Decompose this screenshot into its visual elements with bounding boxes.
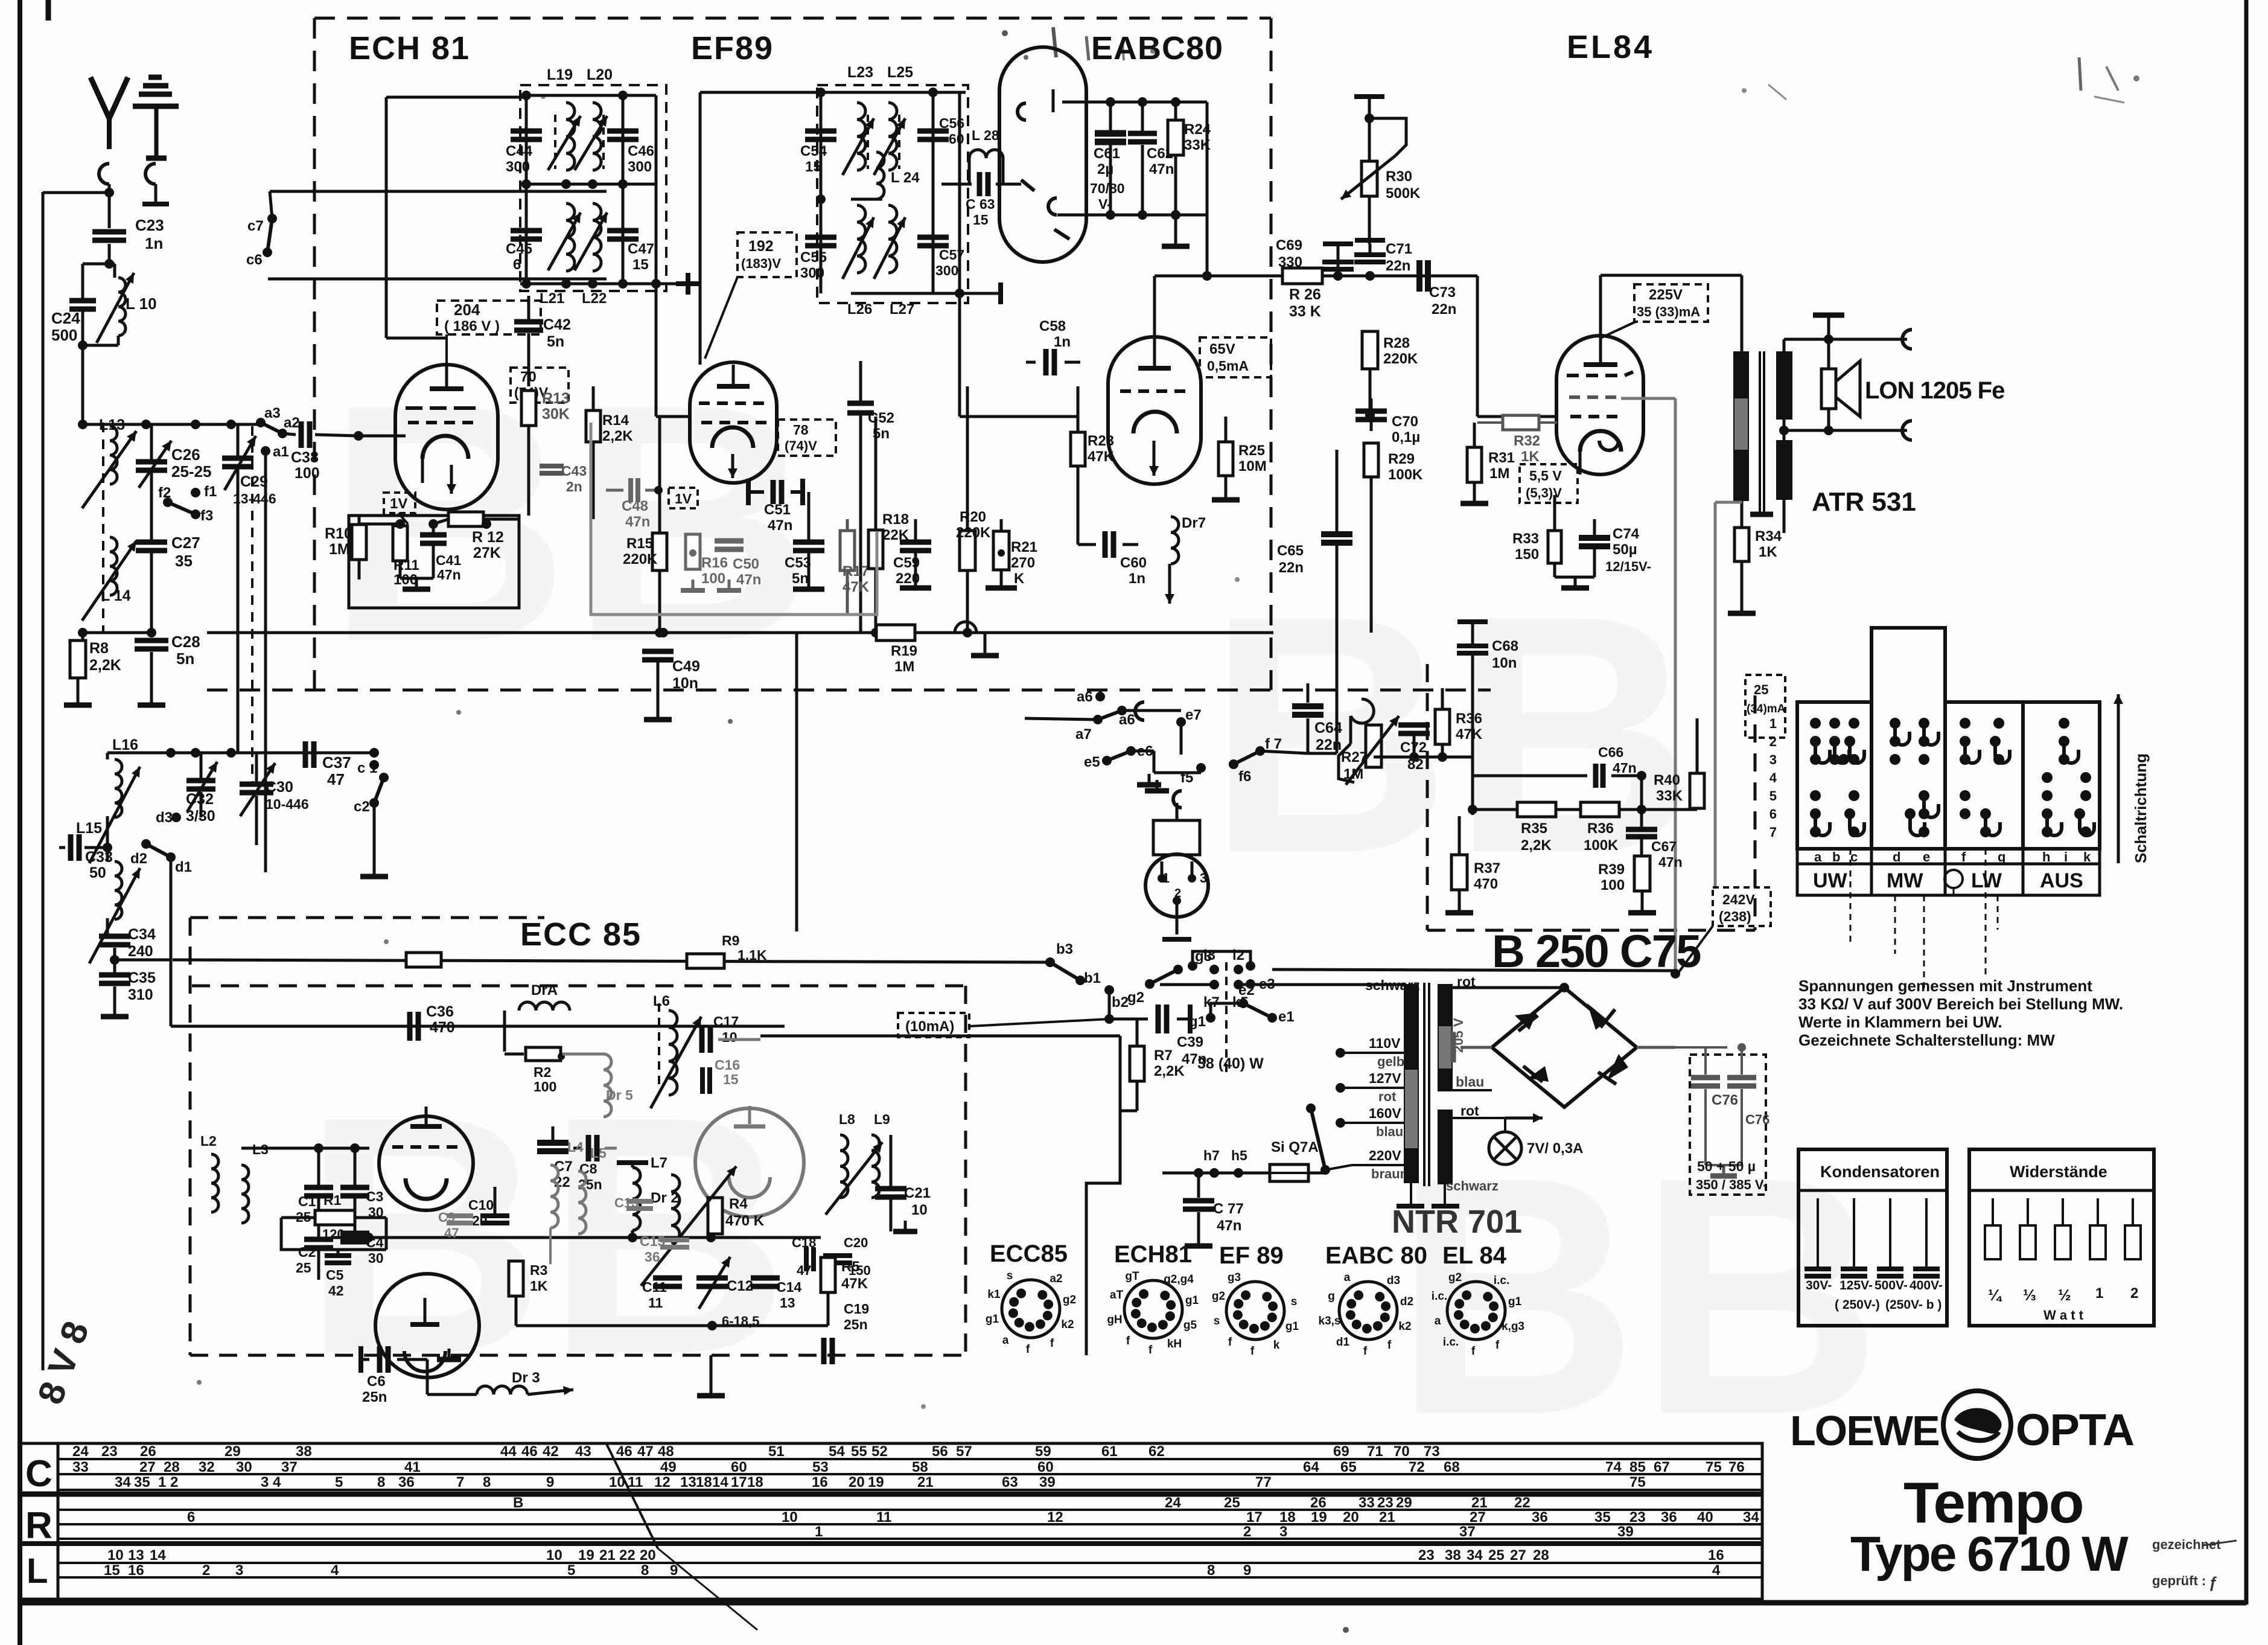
svg-text:R7: R7: [1154, 1047, 1173, 1064]
page frame left border: [18, 0, 22, 1645]
svg-text:220V: 220V: [1369, 1148, 1401, 1163]
svg-text:5n: 5n: [547, 333, 564, 350]
svg-text:C10: C10: [468, 1197, 494, 1213]
svg-text:a7: a7: [1075, 726, 1092, 743]
EF89 internal electrodes: [699, 365, 766, 478]
svg-text:10n: 10n: [672, 675, 698, 692]
label 205V rotated: [1451, 1018, 1466, 1053]
svg-text:g: g: [1998, 849, 2005, 864]
svg-text:ƒ: ƒ: [2209, 1573, 2217, 1591]
svg-text:47: 47: [637, 1443, 654, 1460]
svg-text:i.c.: i.c.: [1432, 1290, 1447, 1303]
coil DrA: [505, 982, 570, 1052]
wire T4 anode up: [1153, 276, 1156, 338]
svg-text:f: f: [1148, 1344, 1153, 1356]
legend resistor symbols: [1985, 1198, 2141, 1323]
svg-text:15: 15: [723, 1072, 739, 1087]
svg-text:C44: C44: [506, 143, 533, 159]
svg-text:f: f: [1471, 1345, 1476, 1358]
power switch lever: [1306, 1104, 1352, 1175]
capacitor C17: [677, 1014, 760, 1053]
svg-text:7: 7: [1769, 825, 1777, 840]
svg-text:100: 100: [701, 570, 725, 587]
coil Dr3: [427, 1359, 540, 1394]
label EF89: [691, 30, 774, 66]
svg-text:a: a: [1344, 1271, 1351, 1284]
svg-text:100K: 100K: [1388, 467, 1423, 483]
svg-text:15: 15: [805, 159, 821, 175]
label L25: [887, 64, 913, 81]
svg-text:R21: R21: [1011, 539, 1037, 555]
coils L4 L5 gray: [550, 1139, 607, 1264]
resistor R17: [840, 519, 870, 615]
svg-text:47n: 47n: [736, 572, 761, 588]
svg-text:aT: aT: [1110, 1289, 1124, 1302]
svg-text:i.c.: i.c.: [1443, 1336, 1459, 1349]
resistor R2: [505, 1047, 604, 1094]
svg-text:R33: R33: [1512, 531, 1539, 547]
resistor R25: [1212, 417, 1267, 500]
svg-text:75: 75: [1629, 1474, 1646, 1490]
tube EF89: [690, 362, 777, 483]
svg-text:204: 204: [454, 301, 480, 319]
handwritten mark 8V8: [30, 1316, 97, 1410]
svg-text:47n: 47n: [437, 567, 461, 583]
svg-text:72: 72: [1409, 1459, 1425, 1475]
svg-text:g1: g1: [986, 1313, 999, 1326]
svg-text:f2: f2: [158, 485, 171, 501]
svg-text:k5: k5: [1232, 994, 1249, 1011]
svg-text:g1: g1: [1508, 1295, 1522, 1308]
resistor R29: [1364, 443, 1423, 633]
svg-text:23: 23: [1418, 1547, 1435, 1564]
svg-text:LW: LW: [1971, 869, 2002, 892]
svg-text:192: 192: [748, 238, 774, 255]
svg-text:R34: R34: [1755, 528, 1782, 545]
mains DIN socket: [1145, 803, 1208, 939]
svg-text:f1: f1: [204, 484, 217, 500]
svg-text:L27: L27: [890, 301, 914, 318]
svg-text:12: 12: [1047, 1509, 1063, 1525]
dashed voltage box 5,5V (5,3)V: [1520, 464, 1578, 503]
capacitor C46: [607, 131, 654, 175]
svg-text:C23: C23: [135, 216, 164, 234]
svg-text:i3: i3: [1203, 947, 1215, 963]
resistor R14: [586, 386, 633, 519]
svg-text:rot: rot: [1378, 1089, 1397, 1104]
matrix contacts UW column: [1810, 718, 1864, 837]
resistor R8: [70, 640, 121, 695]
svg-text:62: 62: [1148, 1443, 1165, 1460]
coil L13: [78, 417, 136, 633]
capacitor C35: [99, 969, 156, 1007]
capacitor C51: [748, 479, 803, 534]
svg-text:W a t t: W a t t: [2043, 1308, 2084, 1323]
svg-text:C43: C43: [561, 463, 587, 479]
svg-text:270: 270: [1011, 555, 1035, 571]
svg-text:34: 34: [1743, 1509, 1759, 1525]
switch matrix row numbers: [1769, 716, 1777, 840]
svg-text:C67: C67: [1651, 838, 1677, 854]
svg-text:50 + 50 µ: 50 + 50 µ: [1697, 1158, 1756, 1174]
svg-text:37: 37: [1459, 1524, 1476, 1540]
svg-text:EF89: EF89: [691, 30, 774, 66]
svg-text:47: 47: [327, 770, 345, 788]
svg-text:3: 3: [1769, 752, 1777, 767]
title Type 6710W: [1850, 1527, 2129, 1582]
svg-text:L5: L5: [590, 1145, 607, 1161]
capacitor C19: [824, 1301, 869, 1364]
wire EL84 anode to OT: [1601, 275, 1742, 351]
svg-text:L: L: [27, 1551, 48, 1591]
wire osc out: [386, 1233, 426, 1235]
dashed box ECC85 oscillator section: [190, 918, 966, 1355]
svg-text:28: 28: [1533, 1547, 1549, 1564]
table L row 1 numbers: [107, 1547, 1724, 1564]
svg-text:Werte in Klammern bei UW.: Werte in Klammern bei UW.: [1798, 1013, 2002, 1031]
svg-text:R 26: R 26: [1289, 286, 1321, 303]
corner tick top-left: [46, 0, 51, 21]
svg-text:85: 85: [1629, 1459, 1646, 1475]
hook and ground mid switch: [1135, 702, 1161, 785]
wire OT secondary mid: [1779, 420, 1907, 440]
svg-text:gH: gH: [1107, 1314, 1122, 1326]
note line 1: [1798, 977, 2092, 995]
svg-text:330: 330: [1278, 254, 1302, 270]
svg-text:R37: R37: [1474, 860, 1500, 877]
svg-text:25-25: 25-25: [171, 462, 212, 481]
trimmer C32: [186, 753, 217, 825]
capacitor C63: [941, 172, 1021, 228]
svg-text:36: 36: [1532, 1509, 1548, 1525]
resistor R23: [1071, 386, 1115, 545]
svg-text:s: s: [1007, 1270, 1013, 1282]
svg-text:56: 56: [932, 1443, 948, 1460]
capacitor C48 (gray): [606, 478, 663, 530]
svg-text:a2: a2: [1050, 1273, 1062, 1285]
R1 parallel loop: [281, 1218, 386, 1250]
svg-text:C60: C60: [1120, 555, 1147, 571]
annotation geprueft: [2152, 1573, 2217, 1591]
svg-text:C54: C54: [800, 143, 827, 159]
svg-text:25: 25: [1488, 1547, 1505, 1564]
capacitor C34: [99, 926, 156, 973]
wire to R40: [1629, 718, 1697, 719]
svg-text:C30: C30: [266, 779, 293, 796]
svg-text:e: e: [1923, 849, 1930, 864]
svg-text:24: 24: [72, 1443, 89, 1460]
capacitor C7: [537, 1126, 573, 1190]
capacitor C20: [823, 1235, 871, 1278]
IF1 left wire: [521, 91, 531, 289]
svg-text:EABC80: EABC80: [1091, 30, 1223, 66]
svg-text:4: 4: [1712, 1562, 1721, 1579]
dashed voltage box 78 (74)V: [778, 420, 836, 456]
capacitor C45: [506, 231, 542, 273]
logo emblem circle: [1943, 1391, 2011, 1458]
wire main switch bus: [1250, 939, 1678, 971]
capacitor C4: [340, 1233, 384, 1266]
svg-text:(34)mA: (34)mA: [1747, 703, 1786, 715]
svg-text:k,g3: k,g3: [1502, 1320, 1524, 1333]
svg-text:100: 100: [1601, 877, 1625, 893]
svg-text:1: 1: [158, 1474, 166, 1490]
svg-text:Widerstände: Widerstände: [2010, 1163, 2107, 1181]
svg-text:d1: d1: [1336, 1336, 1350, 1349]
svg-text:30: 30: [236, 1459, 252, 1475]
svg-text:R28: R28: [1383, 335, 1410, 351]
svg-text:R18: R18: [882, 511, 909, 528]
svg-text:d3: d3: [1387, 1274, 1400, 1287]
resistor R10: [325, 516, 366, 580]
capacitor C14: [751, 1278, 801, 1311]
svg-text:29: 29: [225, 1443, 241, 1460]
switch c1 c2: [354, 760, 389, 867]
capacitor C16: [702, 1057, 740, 1094]
svg-text:R19: R19: [891, 643, 917, 659]
transformer NTR701 primary bar: [1404, 984, 1419, 1183]
coil Dr5 gray: [604, 1054, 633, 1117]
IF1 right wire: [618, 91, 628, 289]
svg-text:47: 47: [797, 1263, 811, 1278]
svg-text:220K: 220K: [1383, 351, 1418, 367]
solid box AGC cell: [349, 516, 519, 608]
svg-text:b: b: [1832, 849, 1840, 864]
dashed voltage box 1V: [384, 493, 415, 524]
switch e5 e6 lever: [1084, 743, 1153, 770]
svg-text:21: 21: [917, 1474, 934, 1490]
svg-text:C13: C13: [614, 1195, 639, 1210]
wire gray g2 right: [1621, 398, 1675, 974]
wire g3 jog: [1193, 951, 1255, 971]
svg-text:127V: 127V: [1369, 1070, 1401, 1086]
svg-text:11: 11: [648, 1295, 663, 1311]
svg-text:c7: c7: [247, 218, 264, 234]
tube EL84: [1556, 336, 1643, 474]
svg-text:C36: C36: [426, 1003, 454, 1020]
svg-text:d3: d3: [156, 810, 173, 826]
svg-text:69: 69: [1333, 1443, 1349, 1460]
svg-text:2: 2: [170, 1474, 178, 1490]
label NTR 701: [1392, 1204, 1522, 1240]
svg-text:54: 54: [829, 1443, 845, 1460]
svg-text:R20: R20: [960, 509, 986, 525]
capacitor C65: [1277, 450, 1352, 753]
svg-text:500V-: 500V-: [1875, 1279, 1908, 1292]
capacitor C36: [410, 1003, 455, 1041]
svg-text:a1: a1: [273, 444, 289, 460]
svg-text:300: 300: [628, 159, 652, 175]
svg-text:310: 310: [128, 986, 153, 1003]
svg-text:13: 13: [680, 1474, 696, 1490]
resistor R31: [1461, 423, 1515, 503]
svg-text:C 77: C 77: [1213, 1201, 1244, 1217]
grid wire into ECH81 tube: [358, 435, 406, 438]
svg-text:(74)V: (74)V: [785, 438, 817, 453]
svg-text:5: 5: [335, 1474, 343, 1490]
connector hook top right: [1902, 330, 1912, 349]
svg-text:f: f: [1050, 1337, 1054, 1350]
svg-text:34: 34: [1467, 1547, 1483, 1564]
pilot lamp: [1453, 1113, 1583, 1164]
svg-text:AUS: AUS: [2040, 869, 2083, 892]
volume control R30: [1341, 97, 1421, 244]
trimmer C12: [696, 1257, 759, 1329]
dashed voltage box 242V (238): [1679, 887, 1771, 972]
capacitor C3: [340, 1143, 384, 1231]
svg-text:47K: 47K: [1456, 726, 1483, 743]
capacitor C60: [1078, 531, 1147, 587]
contact d3: [156, 810, 181, 826]
svg-text:33: 33: [72, 1459, 89, 1475]
svg-text:18: 18: [747, 1474, 763, 1490]
capacitor C64: [1260, 683, 1342, 753]
svg-text:f 7: f 7: [1265, 736, 1282, 752]
label schwarz top: [1365, 977, 1420, 993]
svg-text:LON 1205 Fe: LON 1205 Fe: [1865, 377, 2004, 404]
wire antenna to bus: [43, 188, 114, 197]
svg-text:gelb: gelb: [1377, 1054, 1404, 1069]
wire R30 down to C71: [1369, 244, 1371, 252]
ground below c2: [360, 866, 388, 877]
table C row 1 numbers: [72, 1443, 1440, 1460]
resistor R13: [521, 390, 570, 426]
svg-text:C27: C27: [171, 534, 200, 552]
wire anode top to IF1: [386, 96, 526, 99]
svg-text:C76: C76: [1745, 1112, 1769, 1127]
svg-text:e5: e5: [1084, 754, 1100, 770]
svg-text:15: 15: [632, 257, 649, 273]
svg-text:d2: d2: [1400, 1295, 1413, 1308]
svg-text:19: 19: [868, 1474, 884, 1490]
svg-text:42: 42: [328, 1283, 344, 1298]
capacitor C52: [847, 361, 894, 633]
svg-text:2µ: 2µ: [1097, 161, 1113, 177]
dashed voltage box 1V EF89: [669, 488, 698, 508]
svg-text:150: 150: [1515, 546, 1539, 563]
arrow after Dr3: [527, 1386, 573, 1395]
svg-text:470 K: 470 K: [725, 1213, 765, 1229]
svg-text:¼: ¼: [1988, 1286, 2002, 1304]
ground OT bottom: [1742, 501, 1773, 514]
svg-text:i: i: [2064, 849, 2068, 864]
svg-text:(183)V: (183)V: [741, 256, 781, 271]
resistor R24: [1168, 102, 1211, 237]
svg-text:C49: C49: [672, 658, 700, 675]
svg-text:35: 35: [175, 552, 193, 570]
svg-text:77: 77: [1255, 1474, 1272, 1490]
capacitor C50 (gray): [715, 541, 761, 588]
svg-text:k: k: [1273, 1339, 1280, 1352]
svg-text:38 (40) W: 38 (40) W: [1197, 1055, 1264, 1072]
svg-text:C14: C14: [776, 1279, 801, 1295]
coil L8 L9: [826, 1111, 891, 1215]
resistor R6 on bus: [406, 953, 441, 967]
svg-text:Gezeichnete Schalterstellun: Gezeichnete Schalterstellung: MW: [1798, 1031, 2055, 1049]
wire hook jump: [955, 622, 976, 633]
dashed voltage box 192 (183)V: [705, 232, 797, 359]
svg-text:( 250V-): ( 250V-): [1835, 1298, 1880, 1312]
resistor R28: [1362, 331, 1418, 420]
switch d2 d1: [130, 839, 192, 875]
svg-text:74: 74: [1605, 1459, 1622, 1475]
matrix contacts LW column: [1960, 718, 2010, 837]
svg-text:10: 10: [107, 1547, 124, 1564]
svg-text:R36: R36: [1587, 820, 1614, 837]
svg-text:C53: C53: [785, 555, 811, 571]
svg-text:50µ: 50µ: [1613, 541, 1637, 558]
capacitor C76b: [1727, 1043, 1756, 1165]
resistor R16 (gray): [686, 534, 728, 587]
svg-text:s: s: [1291, 1295, 1298, 1308]
label blau mid: [1456, 1074, 1484, 1090]
svg-text:g2: g2: [1448, 1271, 1462, 1284]
svg-text:71: 71: [1367, 1443, 1383, 1460]
svg-text:C45: C45: [506, 241, 532, 257]
svg-text:120: 120: [322, 1227, 345, 1242]
wire HT bottom to bridge: [1453, 1047, 1492, 1090]
wire B+ rail right gray: [1715, 502, 1742, 886]
capacitor C68: [1457, 622, 1518, 688]
svg-text:38: 38: [296, 1443, 312, 1460]
IF2 horizontals: [817, 92, 966, 293]
svg-text:k3,s: k3,s: [1319, 1315, 1341, 1327]
svg-text:C1: C1: [298, 1193, 316, 1209]
capacitor C8: [573, 1135, 617, 1192]
ground above speaker: [1813, 315, 1844, 339]
capacitor C58: [1026, 318, 1080, 375]
svg-text:R25: R25: [1238, 442, 1265, 459]
svg-text:10: 10: [782, 1509, 798, 1525]
box around band switch c7/c6: [268, 191, 607, 279]
capacitor C28: [135, 633, 200, 695]
IF/AGC bus wire: [207, 628, 1273, 637]
svg-text:22: 22: [1514, 1495, 1531, 1511]
svg-text:C46: C46: [628, 143, 654, 159]
wire R13 down: [527, 426, 530, 516]
coil L2: [200, 1133, 218, 1212]
label LON 1205 Fe: [1865, 377, 2004, 404]
svg-text:L6: L6: [653, 993, 670, 1009]
EABC80 right wire down: [1206, 102, 1209, 276]
IF1 secondary right wire: [651, 95, 661, 417]
svg-text:⅓: ⅓: [2023, 1286, 2036, 1304]
svg-text:k: k: [2083, 849, 2091, 864]
svg-text:36: 36: [1661, 1509, 1677, 1525]
svg-text:500K: 500K: [1386, 185, 1421, 202]
svg-text:61: 61: [1101, 1443, 1118, 1460]
svg-text:ATR 531: ATR 531: [1812, 487, 1916, 517]
label rot lamp: [1461, 1103, 1479, 1119]
svg-text:k2: k2: [1398, 1320, 1411, 1333]
bus down to switches: [1273, 633, 1274, 690]
svg-text:f: f: [1250, 1345, 1255, 1358]
svg-text:C55: C55: [800, 249, 827, 266]
table stray diagonal stroke: [607, 1444, 757, 1630]
svg-text:2: 2: [1243, 1524, 1251, 1540]
svg-text:44: 44: [500, 1443, 517, 1460]
svg-text:5,5 V: 5,5 V: [1529, 468, 1562, 484]
switch matrix LW column box: [1945, 702, 2023, 849]
svg-text:15: 15: [104, 1562, 120, 1579]
svg-text:c6: c6: [246, 252, 263, 268]
svg-text:C42: C42: [543, 316, 571, 333]
svg-text:23: 23: [101, 1443, 118, 1460]
svg-text:L2: L2: [200, 1133, 217, 1149]
capacitor C67: [1626, 810, 1683, 870]
svg-text:f: f: [1961, 849, 1966, 864]
svg-text:30K: 30K: [542, 406, 570, 423]
